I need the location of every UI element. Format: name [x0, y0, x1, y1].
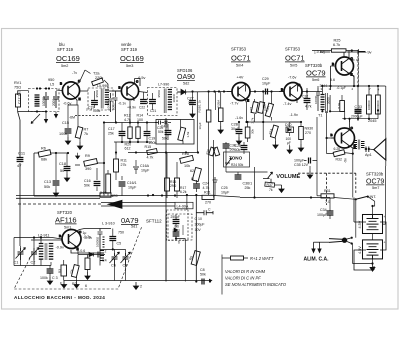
wire T1 secondary to Q6 base	[317, 111, 345, 196]
svg-text:270: 270	[205, 201, 211, 205]
svg-text:10μF: 10μF	[221, 191, 230, 195]
svg-text:75Ω: 75Ω	[14, 85, 21, 89]
wire: rail y153 left	[34, 153, 113, 196]
svg-text:R3: R3	[58, 269, 62, 273]
svg-text:-0.9v: -0.9v	[56, 246, 65, 250]
svg-text:300μF: 300μF	[195, 223, 205, 227]
collector wire to L3	[80, 229, 113, 237]
svg-text:-7v: -7v	[72, 71, 77, 75]
wire: vertical rail right of Q5	[352, 52, 358, 88]
wire: vertical dashed right of Q5	[357, 54, 359, 86]
variable capacitor C6	[110, 252, 120, 268]
label C10	[195, 217, 205, 232]
svg-text:C2B: C2B	[231, 123, 239, 127]
svg-text:R15: R15	[145, 145, 152, 149]
wire: antenna box top bus	[18, 90, 29, 92]
svg-text:6.2k: 6.2k	[334, 147, 341, 151]
svg-text:B: B	[59, 234, 61, 238]
svg-text:4.7k: 4.7k	[305, 105, 312, 109]
svg-text:C21: C21	[150, 109, 156, 113]
svg-text:5m1: 5m1	[64, 226, 71, 230]
svg-text:390: 390	[85, 167, 91, 171]
battery interconnect wires	[353, 166, 386, 264]
svg-text:10V: 10V	[195, 228, 202, 232]
resistor R12 4.7k	[124, 101, 132, 142]
svg-text:2: 2	[140, 285, 142, 289]
svg-text:+0.9v: +0.9v	[127, 106, 136, 110]
svg-text:10k: 10k	[184, 164, 190, 168]
svg-text:-6M: -6M	[69, 116, 75, 120]
svg-text:10000: 10000	[314, 95, 318, 104]
wire dashed AGC	[75, 115, 109, 117]
svg-text:C29: C29	[262, 77, 269, 81]
dashed box: IF transformer 2	[148, 88, 178, 116]
resistor vertical 100000	[367, 86, 372, 119]
svg-text:SFT353: SFT353	[231, 47, 247, 52]
svg-text:AF116: AF116	[55, 216, 77, 225]
svg-text:-0.1v: -0.1v	[118, 102, 126, 106]
wire switch to battery	[334, 197, 375, 202]
svg-text:L5-990: L5-990	[97, 84, 108, 88]
arrow at rail end	[209, 279, 213, 283]
capacitor C19 inside IF1	[88, 91, 101, 113]
wire: volume rail	[240, 197, 330, 199]
svg-text:R22: R22	[249, 107, 253, 113]
resistor R2 220k	[92, 72, 108, 89]
wire: bus Q4-T1	[302, 91, 322, 93]
svg-text:N930: N930	[305, 127, 314, 131]
diode D2 OA90 symbol	[178, 89, 187, 94]
svg-text:50k: 50k	[235, 148, 241, 152]
svg-text:C24: C24	[203, 182, 210, 186]
svg-text:50: 50	[60, 169, 64, 173]
diode D1 OA79 big symbol	[101, 200, 175, 208]
resistor R3	[58, 260, 67, 286]
svg-text:2.7k: 2.7k	[251, 117, 255, 123]
svg-text:50k: 50k	[162, 137, 168, 141]
svg-text:950Ω: 950Ω	[95, 89, 99, 97]
variable capacitor C1	[14, 248, 26, 265]
resistor R9 390	[84, 154, 98, 171]
svg-text:10000Ω: 10000Ω	[96, 236, 100, 247]
svg-text:2: 2	[105, 250, 107, 254]
wire rows under Q3	[247, 92, 302, 141]
svg-text:6.7k: 6.7k	[333, 43, 340, 47]
svg-text:7k: 7k	[84, 132, 88, 136]
resistor R54 slanted	[268, 125, 278, 148]
wire: top bus Q1-Q2	[80, 90, 122, 92]
svg-text:R12: R12	[124, 114, 131, 118]
wire: Q5 supply rail	[320, 52, 358, 58]
svg-text:30k: 30k	[251, 129, 255, 134]
svg-text:C35 12V: C35 12V	[294, 163, 309, 167]
svg-text:B: B	[60, 82, 62, 86]
variable capacitor C7	[121, 252, 131, 268]
svg-text:OC79: OC79	[366, 179, 384, 186]
svg-text:-0.6v: -0.6v	[63, 102, 72, 106]
capacitor C21a vertical left of Q2	[106, 93, 112, 112]
label Q1	[57, 42, 74, 52]
svg-text:OC71: OC71	[231, 54, 251, 63]
capacitor rotated 10000	[314, 88, 320, 111]
wire 2045 row	[342, 119, 378, 122]
svg-text:100: 100	[137, 118, 143, 122]
svg-text:-9v: -9v	[366, 49, 372, 54]
wire: antenna box verticals	[18, 112, 20, 247]
capacitor 10000	[42, 92, 49, 108]
svg-text:Ap1: Ap1	[365, 153, 372, 157]
svg-text:E: E	[79, 97, 81, 101]
resistor R2 slanted	[69, 255, 79, 287]
svg-text:C8: C8	[200, 268, 205, 272]
capacitor C28 30uF	[231, 121, 242, 145]
svg-text:SFT320b: SFT320b	[305, 63, 323, 68]
transistor Q1 OC169	[56, 79, 81, 101]
svg-text:SFT 319: SFT 319	[121, 47, 138, 52]
resistor R22	[249, 102, 258, 124]
svg-text:R18: R18	[182, 152, 189, 156]
svg-text:B: B	[331, 133, 333, 137]
capacitor C32	[302, 90, 312, 110]
wire: long vertical x104	[103, 123, 105, 196]
capacitor C33	[351, 105, 363, 119]
svg-text:4.5V: 4.5V	[358, 246, 362, 254]
svg-text:100k: 100k	[40, 276, 48, 280]
svg-text:62: 62	[190, 169, 194, 173]
capacitor C15 100k	[59, 118, 71, 145]
capacitor C9 right of L4	[196, 208, 213, 216]
svg-text:R11: R11	[121, 159, 127, 163]
svg-text:-6.5v: -6.5v	[137, 76, 146, 80]
speaker Ap1	[365, 139, 386, 160]
svg-text:VALORI DI C IN PF: VALORI DI C IN PF	[225, 276, 261, 281]
battery B1	[358, 215, 386, 234]
resistor R10	[97, 162, 111, 196]
svg-text:R24 50k: R24 50k	[231, 163, 244, 167]
wire switch down to plug	[355, 199, 357, 237]
svg-text:7.0: 7.0	[325, 200, 330, 204]
arrow -9v	[358, 49, 365, 54]
resistor R4 vertical	[85, 255, 90, 280]
capacitor C16 50k	[76, 153, 101, 191]
transistor Q3 OC71	[227, 83, 250, 104]
svg-text:10000: 10000	[172, 94, 176, 103]
wire: vertical x196 detector down	[195, 195, 197, 282]
svg-text:R32: R32	[336, 158, 342, 162]
IF1 winding core	[101, 89, 103, 109]
svg-text:C22: C22	[139, 106, 145, 110]
svg-text:270: 270	[305, 131, 311, 135]
ground near R37	[279, 185, 284, 193]
svg-text:10μF: 10μF	[262, 82, 271, 86]
wire supply rail Q5	[312, 51, 358, 53]
svg-text:E: E	[247, 99, 249, 103]
svg-text:SFT 319: SFT 319	[57, 47, 74, 52]
svg-text:B: B	[119, 86, 121, 90]
svg-text:R+1 2 WATT: R+1 2 WATT	[250, 256, 274, 261]
resistor R15 diagonal	[145, 145, 158, 160]
wire Q6 collector up	[349, 119, 351, 122]
node: junction dots antenna	[36, 87, 38, 89]
capacitor 2000	[52, 91, 59, 108]
resistor R7 7k	[75, 114, 88, 150]
svg-text:C16: C16	[84, 179, 91, 183]
svg-text:[-0.5v]: [-0.5v]	[315, 50, 325, 54]
svg-text:SFT320: SFT320	[57, 210, 73, 215]
svg-text:C16A: C16A	[140, 164, 150, 168]
wires right column top	[307, 76, 386, 105]
svg-text:100μF: 100μF	[317, 213, 328, 217]
svg-text:L 3-910: L 3-910	[102, 222, 115, 226]
pot R24 tono box	[224, 152, 250, 167]
svg-text:2000: 2000	[52, 99, 56, 106]
wire speaker connect	[353, 86, 386, 166]
wire row y142	[114, 141, 152, 143]
svg-text:C6: C6	[111, 264, 116, 268]
wire: Q2 collector up	[135, 79, 141, 87]
svg-text:100000: 100000	[367, 100, 371, 110]
transistor Q4 OC71	[279, 83, 302, 104]
switch INT	[355, 195, 377, 200]
ground arrows under antenna box	[44, 112, 58, 124]
resistor R6	[38, 147, 51, 162]
svg-text:VOLUME: VOLUME	[276, 174, 300, 180]
mains plug ALIM	[314, 237, 353, 245]
svg-text:10μF: 10μF	[141, 169, 150, 173]
alim down arrows	[311, 242, 321, 253]
capacitor C3	[40, 266, 58, 285]
transistor Q7 AF116	[52, 230, 82, 255]
svg-text:1.5k: 1.5k	[186, 131, 190, 137]
svg-text:C5: C5	[117, 242, 122, 246]
transformer T1	[318, 92, 331, 118]
resistor R11 27k	[114, 142, 127, 180]
capacitor C25	[213, 177, 231, 195]
wire: bottom mid rail	[165, 215, 167, 281]
svg-text:4.7k: 4.7k	[203, 186, 210, 190]
notes text	[225, 256, 287, 287]
resistor R18	[180, 152, 194, 168]
resistor R37	[265, 182, 275, 192]
output transformer windings	[354, 140, 365, 150]
svg-text:50k: 50k	[158, 130, 164, 134]
svg-text:4.5V: 4.5V	[358, 220, 362, 228]
resistor R23 vertical	[217, 92, 224, 134]
wire rail to battery top	[373, 201, 375, 214]
svg-text:μF: μF	[287, 141, 291, 145]
svg-text:SFD106: SFD106	[177, 68, 193, 73]
resistor R17	[175, 162, 187, 198]
capacitor C4 on emitter row	[98, 250, 107, 263]
wire: -9v arrow	[358, 50, 366, 54]
svg-text:C17: C17	[108, 127, 115, 131]
svg-text:10000: 10000	[42, 97, 46, 106]
resistor vertical 200000	[376, 86, 381, 119]
wires osc right	[115, 249, 126, 280]
svg-text:25k: 25k	[245, 186, 251, 190]
pot VOLUME arrow	[226, 172, 273, 183]
capacitor C16/1	[119, 176, 137, 196]
svg-text:200000: 200000	[376, 100, 380, 110]
resistor R21 270	[202, 191, 214, 205]
svg-text:5.6: 5.6	[330, 78, 335, 82]
svg-text:R7: R7	[84, 128, 89, 132]
svg-text:100k: 100k	[93, 109, 101, 113]
svg-text:OC71: OC71	[285, 54, 305, 63]
capacitor C24	[193, 180, 209, 192]
svg-text:-7.4v: -7.4v	[283, 102, 292, 106]
resistor RV1 body	[16, 91, 22, 107]
svg-text:5m2: 5m2	[61, 64, 68, 68]
wire: mech dashed gang link	[18, 203, 103, 205]
svg-text:C36/1: C36/1	[243, 182, 253, 186]
dashed box: detector block	[168, 214, 192, 240]
svg-text:D6: D6	[175, 224, 179, 228]
wire Q1 emitter down	[68, 100, 78, 118]
svg-text:C34: C34	[320, 208, 327, 212]
svg-text:C 3: C 3	[52, 276, 58, 280]
svg-text:-0.1μF: -0.1μF	[337, 86, 346, 90]
ground on rail	[61, 281, 66, 289]
resistor R20 label	[125, 142, 132, 150]
svg-text:R31: R31	[324, 189, 331, 193]
resistor R32 slanted	[333, 147, 345, 162]
resistor R25 body	[331, 49, 346, 52]
svg-text:68k: 68k	[41, 158, 47, 162]
svg-text:-7.7v: -7.7v	[230, 102, 239, 106]
capacitor C19b 100k	[144, 123, 157, 145]
svg-text:2000: 2000	[111, 103, 115, 110]
svg-text:C12 250: C12 250	[18, 91, 22, 104]
resistor R8 12k on rail	[100, 193, 118, 198]
wire: rail y198	[16, 197, 100, 199]
IF2 winding core and coil	[164, 89, 166, 114]
svg-text:L5: L5	[50, 83, 54, 87]
svg-text:-2.3v: -2.3v	[84, 236, 92, 240]
svg-text:OC79: OC79	[306, 69, 326, 78]
ground battery	[369, 264, 375, 273]
svg-text:100μF: 100μF	[294, 159, 305, 163]
svg-text:SFT320b: SFT320b	[366, 172, 384, 177]
svg-text:1μ: 1μ	[83, 231, 87, 235]
ground under C35	[307, 171, 312, 179]
svg-text:390: 390	[112, 194, 118, 198]
svg-text:R35A: R35A	[217, 99, 221, 108]
svg-text:L7-990: L7-990	[158, 83, 169, 87]
svg-text:SE NON ALTRIMENTI INDICATO: SE NON ALTRIMENTI INDICATO	[225, 282, 287, 287]
svg-text:R9: R9	[85, 154, 90, 158]
resistor R21a 30k	[245, 121, 254, 142]
svg-text:7k: 7k	[269, 188, 273, 192]
resistor R14 100	[136, 114, 143, 143]
svg-text:5m3: 5m3	[126, 64, 133, 68]
IF1 winding right	[105, 90, 109, 104]
trimmer on rail	[205, 147, 219, 156]
svg-text:100k: 100k	[59, 132, 67, 136]
svg-text:-1.6v: -1.6v	[235, 116, 243, 120]
dashed box: IF transformer 1	[88, 88, 113, 110]
svg-text:+4V: +4V	[237, 76, 244, 80]
pin numbers on bus	[321, 87, 380, 91]
svg-text:10μF: 10μF	[198, 122, 202, 129]
wire: Q1 collector diagonal up	[79, 70, 91, 83]
svg-text:950Ω: 950Ω	[157, 89, 161, 97]
svg-text:950: 950	[48, 78, 54, 82]
svg-text:Ω: Ω	[191, 177, 194, 181]
svg-text:5m4: 5m4	[236, 64, 243, 68]
capacitor C22 at Q2 collector	[139, 92, 147, 110]
node y153	[55, 152, 57, 154]
svg-text:T1: T1	[318, 114, 322, 118]
svg-text:C2: C2	[31, 261, 36, 265]
diode D10	[285, 122, 294, 154]
label Q2	[121, 42, 138, 52]
transistor Q2 OC169	[114, 79, 139, 102]
svg-text:5d1: 5d1	[131, 225, 137, 229]
svg-text:220k: 220k	[95, 76, 103, 80]
coil L1 primary	[35, 95, 40, 106]
svg-text:50k: 50k	[44, 185, 50, 189]
resistor R18b slanted	[258, 102, 267, 114]
resistor R16	[165, 153, 177, 199]
svg-text:47: 47	[17, 163, 22, 168]
diode D3 on emitter row	[78, 252, 105, 256]
node dots on antenna box top	[39, 87, 41, 89]
oscillator coil L3 with padder	[96, 229, 105, 266]
svg-text:C7: C7	[123, 264, 128, 268]
capacitor 750 C5	[100, 231, 126, 251]
resistor R33/1 vertical	[198, 92, 211, 196]
capacitor C34	[317, 198, 333, 220]
dashed detector inner box	[167, 210, 189, 241]
svg-text:ALIM. C.A.: ALIM. C.A.	[304, 257, 330, 263]
resistor R27	[337, 95, 345, 119]
wire Q6 emitter down and R32	[327, 138, 353, 198]
capacitor C27	[187, 92, 196, 118]
svg-text:R14: R14	[137, 114, 144, 118]
svg-text:B: B	[332, 62, 334, 66]
svg-text:C 10: C 10	[195, 217, 202, 221]
svg-text:25k: 25k	[108, 132, 114, 136]
svg-text:29Ω: 29Ω	[170, 184, 177, 188]
svg-text:50k: 50k	[200, 273, 206, 277]
wire: vertical feed from bus to rail	[196, 92, 198, 153]
wires oscillator	[14, 238, 52, 266]
resistor R5 slanted	[189, 251, 201, 266]
wire rail branches	[75, 153, 116, 176]
svg-text:T2a: T2a	[93, 72, 100, 76]
svg-text:-7.6v: -7.6v	[288, 76, 297, 80]
svg-text:L2-911: L2-911	[38, 234, 50, 238]
capacitor C13 50k	[44, 153, 59, 197]
capacitor C36	[223, 142, 236, 172]
svg-text:5.6k: 5.6k	[337, 102, 341, 108]
svg-text:-1.9v: -1.9v	[290, 113, 299, 117]
svg-text:VALORI DI R IN OHM: VALORI DI R IN OHM	[225, 269, 266, 274]
wire: right dashed volume-INT link	[298, 173, 356, 205]
svg-text:SFT353: SFT353	[285, 47, 301, 52]
svg-text:2000μF: 2000μF	[351, 114, 363, 118]
wire: Q7 base row	[31, 239, 62, 241]
svg-text:B: B	[281, 88, 283, 92]
diode D6	[173, 224, 184, 235]
resistor 1.5k inside	[178, 127, 186, 141]
svg-text:10μF: 10μF	[128, 186, 137, 190]
svg-text:6.2k: 6.2k	[180, 190, 187, 194]
svg-text:6: 6	[85, 284, 87, 288]
capacitor C35	[294, 158, 317, 168]
svg-text:10000: 10000	[106, 101, 110, 110]
